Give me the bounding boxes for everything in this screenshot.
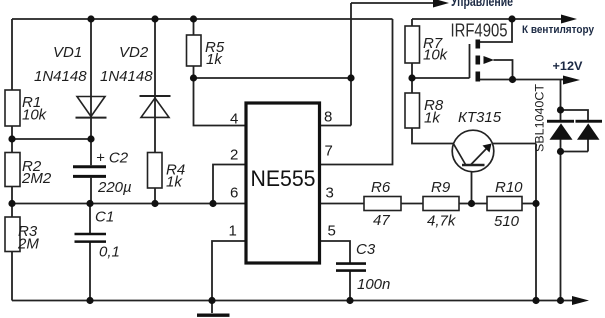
wire pin1 to ground — [212, 241, 245, 301]
wire SBL top link — [561, 110, 589, 121]
wire SBL down column — [560, 152, 562, 301]
wire C2 stubs — [90, 139, 92, 204]
svg-text:10k: 10k — [22, 107, 48, 124]
wire node to R10 — [472, 203, 488, 205]
junction R5 bottom node — [190, 74, 197, 81]
wire R5 column — [193, 19, 195, 78]
wire R8 bottom to base — [412, 128, 454, 144]
junction source +12V node — [509, 76, 516, 83]
svg-text:C3: C3 — [356, 241, 376, 258]
svg-text:К вентилятору: К вентилятору — [522, 24, 595, 36]
arrow +12V — [563, 76, 580, 85]
svg-text:+ C2: + C2 — [96, 150, 129, 167]
svg-text:2M: 2M — [17, 236, 39, 253]
svg-text:10k: 10k — [423, 47, 449, 64]
wire collector horizontal — [493, 143, 536, 145]
wire R6 to R9 — [401, 203, 423, 205]
svg-text:SBL1040CT: SBL1040CT — [533, 83, 547, 152]
wire SBL cathode stubs — [561, 140, 589, 152]
arrow bottom bus — [572, 296, 589, 305]
wire drain link — [480, 19, 512, 42]
diode VD2 — [140, 96, 171, 117]
svg-text:2M2: 2M2 — [21, 170, 52, 187]
wire bottom ground bus — [12, 300, 572, 302]
wire VD2/R4 column — [154, 19, 156, 204]
wire mosfet gate line — [469, 44, 471, 78]
wire ground symbol stub — [211, 300, 213, 313]
wire gate feed — [412, 77, 470, 79]
svg-text:5: 5 — [328, 223, 336, 240]
wire top supply rail — [12, 18, 393, 20]
resistor R4 — [148, 153, 163, 189]
resistor R8 — [405, 93, 420, 128]
resistor R3 — [5, 217, 20, 252]
transistor VT1 IRF4905 mosfet bars — [476, 40, 495, 82]
arrow К вентилятору — [561, 15, 577, 24]
resistor R2 — [5, 153, 20, 187]
junction R2/R3 left rail — [8, 200, 15, 207]
wire R9 to node — [459, 203, 472, 205]
junction VD2 top rail — [151, 15, 158, 22]
wire body-diode link — [494, 60, 513, 80]
junction C3 bottom on ground bus — [346, 297, 353, 304]
wire left rail — [11, 19, 13, 301]
junction VD1 top rail — [87, 15, 94, 22]
svg-text:3: 3 — [326, 185, 334, 202]
svg-text:NE555: NE555 — [251, 166, 316, 191]
svg-text:1k: 1k — [206, 51, 223, 68]
resistor R10 — [487, 197, 522, 211]
junction R7/R8 gate node — [408, 74, 415, 81]
junction R5 top rail — [190, 15, 197, 22]
diode VD3b SBL1040CT right — [576, 120, 603, 140]
svg-text:+12V: +12V — [553, 61, 583, 73]
wire threshold bus y203.5 — [12, 203, 245, 205]
svg-text:510: 510 — [494, 213, 520, 230]
svg-text:VD1: VD1 — [53, 44, 82, 61]
svg-text:R9: R9 — [431, 179, 451, 196]
wire source rail +12V — [480, 79, 564, 81]
junction R1 bottom left rail — [8, 135, 15, 142]
junction R4 bottom on bus — [151, 200, 158, 207]
svg-text:2: 2 — [230, 147, 238, 164]
svg-text:4: 4 — [230, 111, 238, 128]
resistor R6 — [364, 197, 401, 211]
resistor R5 — [187, 35, 202, 66]
wire R5-bottom to control node y78 — [194, 77, 352, 79]
svg-text:C1: C1 — [95, 209, 114, 226]
svg-text:1: 1 — [229, 223, 237, 240]
mosfet body arrow — [484, 56, 495, 64]
wire pin4 connection — [194, 78, 246, 126]
capacitor C2 — [73, 167, 106, 177]
svg-text:7: 7 — [325, 143, 333, 160]
resistor R9 — [423, 197, 459, 211]
wire VD1 column — [90, 19, 92, 139]
transistor VT2 KT315 — [452, 130, 494, 172]
svg-text:6: 6 — [230, 185, 238, 202]
wire pin8 — [321, 125, 351, 127]
capacitor C1 — [75, 234, 107, 242]
svg-text:1N4148: 1N4148 — [34, 68, 87, 85]
ground — [197, 314, 230, 317]
resistor R7 — [405, 26, 420, 63]
capacitor C3 — [336, 264, 366, 271]
wire R10 to x536 — [522, 203, 536, 205]
wire SBL hanger — [560, 80, 562, 121]
svg-text:R6: R6 — [371, 179, 391, 196]
svg-text:Управление: Управление — [451, 0, 513, 9]
junction drain / fan wire — [508, 15, 515, 22]
svg-text:8: 8 — [324, 109, 332, 126]
wire pin2 tie to bus — [213, 165, 245, 204]
junction SBL anode top node — [557, 106, 564, 113]
wire R7 column — [411, 19, 413, 93]
svg-text:220µ: 220µ — [97, 179, 132, 196]
svg-text:1k: 1k — [424, 110, 441, 127]
arrow Управление — [433, 0, 449, 8]
junction pin2 tie on bus — [209, 200, 216, 207]
junction SBL column ground — [557, 297, 564, 304]
junction collector column ground — [532, 297, 539, 304]
junction C1 top on bus — [86, 200, 93, 207]
svg-text:100n: 100n — [357, 276, 390, 293]
junction pin1 ground — [208, 297, 215, 304]
svg-text:0,1: 0,1 — [99, 244, 120, 261]
wire SBL bottom link — [561, 151, 589, 153]
wire Управление arrow line — [351, 2, 436, 4]
wire collector column x536 — [535, 144, 537, 301]
resistor R1 — [5, 90, 20, 126]
svg-text:1k: 1k — [166, 174, 183, 191]
junction SBL cathode bottom node — [557, 148, 564, 155]
wire control riser x351 to pin 8 — [350, 3, 352, 126]
svg-text:IRF4905: IRF4905 — [451, 20, 508, 41]
junction C1 bottom on ground bus — [86, 297, 93, 304]
wire pin5 to C3 — [321, 241, 350, 263]
junction control riser node — [347, 74, 354, 81]
svg-text:КТ315: КТ315 — [458, 109, 502, 126]
wire C3 bottom stub — [349, 272, 351, 301]
ic U1 NE555 — [246, 103, 320, 263]
diode VD1 — [76, 97, 107, 118]
wire emitter riser — [471, 165, 473, 204]
svg-text:R10: R10 — [495, 179, 523, 196]
svg-text:47: 47 — [373, 212, 390, 229]
svg-text:4,7k: 4,7k — [427, 213, 457, 230]
wire R7 top rail to fan arrow — [412, 18, 564, 20]
wire pin3 to R6 — [321, 203, 364, 205]
svg-text:1N4148: 1N4148 — [100, 68, 153, 85]
svg-text:VD2: VD2 — [119, 44, 149, 61]
wire pin7 riser from top rail — [321, 19, 393, 165]
wire node row R1/VD1 junction y139 — [12, 138, 91, 140]
junction emitter / R9-R10 node — [468, 200, 475, 207]
junction VD1 cathode / C2 top — [87, 135, 94, 142]
junction R10 right / collector column — [532, 200, 539, 207]
wire C1 stubs — [89, 204, 91, 301]
diode VD3a SBL1040CT left — [547, 120, 574, 140]
